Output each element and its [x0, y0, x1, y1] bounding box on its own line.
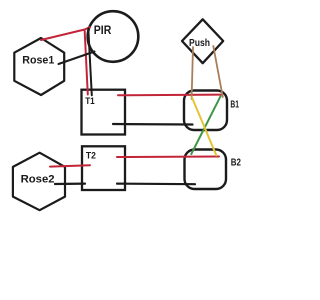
svg-text:B1: B1 — [230, 98, 239, 110]
wire brown Push left to B1 — [192, 47, 193, 99]
wire brown Push right to B1 — [213, 46, 223, 97]
wire black T1 to B1 — [113, 123, 193, 126]
wire red T2 to B2 — [117, 156, 219, 159]
bulb B2 (rounded box) — [185, 150, 227, 190]
wire red T1 to B1 — [118, 94, 221, 97]
wire yellow B1 to B2 — [192, 98, 216, 156]
bulb B1 (rounded box) — [184, 91, 227, 131]
svg-text:Rose1: Rose1 — [22, 55, 54, 67]
wire red Rose2 to T2 — [50, 165, 90, 166]
sensor PIR (circle) — [88, 11, 139, 62]
svg-text:B2: B2 — [231, 157, 242, 168]
wire green B1 to B2 — [191, 96, 220, 154]
transformer T1 (box) — [82, 90, 126, 135]
transformer T2 (box) — [82, 146, 125, 190]
push button Push (diamond) — [182, 19, 223, 63]
svg-text:T2: T2 — [86, 150, 96, 161]
wire black Rose2 to T2 — [55, 183, 85, 186]
svg-text:Rose2: Rose2 — [21, 174, 55, 186]
wire black Rose1 to PIR — [59, 52, 95, 65]
wire red junction stub to PIR — [85, 27, 90, 29]
wire red Rose1 to PIR junction — [41, 30, 85, 41]
svg-text:PIR: PIR — [94, 25, 112, 37]
node Rose2 (hexagon) — [13, 153, 65, 211]
wire black T2 to B2 — [117, 183, 195, 186]
node Rose1 (hexagon) — [14, 38, 64, 95]
wire red junction down to T1 — [85, 30, 88, 95]
svg-text:T1: T1 — [85, 96, 95, 107]
wire black PIR down to T1 — [88, 29, 92, 96]
